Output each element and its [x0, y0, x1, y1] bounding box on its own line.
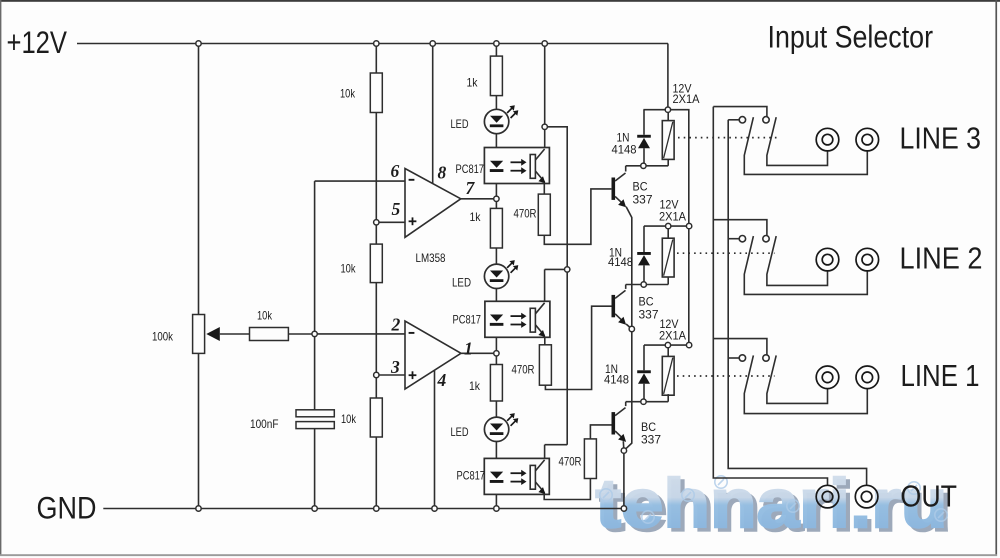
resistor 470R channel 1	[538, 194, 550, 235]
junction divider pin 5	[374, 220, 379, 225]
switch lever right to jack L LINE1	[767, 355, 828, 403]
switch lever right to jack L LINE2	[767, 236, 828, 285]
junction GND / PC817 ch3	[494, 506, 499, 511]
RCA jack R LINE3	[856, 128, 879, 151]
junction collector bus ch2	[565, 267, 570, 272]
optocoupler PC817 channel 2	[485, 301, 550, 337]
wire diode ch1 bottom	[643, 148, 645, 166]
wire op-amp pin 8 to +12V	[432, 44, 434, 184]
svg-text:337: 337	[641, 433, 661, 447]
svg-text:2X1A: 2X1A	[673, 92, 700, 106]
wire 100nF to GND	[314, 429, 316, 509]
svg-text:337: 337	[633, 193, 653, 207]
wire bus L to switch contact LINE1	[713, 339, 767, 355]
wire relay top node ch3	[644, 344, 689, 346]
svg-text:BC: BC	[639, 295, 654, 309]
junction collector bus ch1	[542, 124, 547, 129]
border frame bottom	[0, 554, 997, 556]
wire diode ch3 top	[643, 345, 645, 370]
svg-text:tehnari.ru: tehnari.ru	[596, 465, 948, 542]
wire op-amp pin 1 output	[461, 352, 496, 354]
wire +12V to PC817 ch1 collector	[544, 44, 546, 148]
transistor BC337 channel 1	[612, 173, 627, 207]
svg-text:LINE 3: LINE 3	[900, 121, 982, 156]
svg-text:PC817: PC817	[457, 469, 486, 483]
junction GND / emitter bus	[621, 506, 626, 511]
svg-text:1k: 1k	[467, 76, 479, 90]
junction pin 7 node	[494, 196, 499, 201]
switch lever left to jack R LINE1	[744, 355, 867, 413]
RCA jack R LINE1	[856, 366, 879, 389]
wire BC337 ch1 collector	[625, 166, 627, 172]
RCA jack R LINE2	[856, 248, 879, 271]
wire +12V drop to relay 1	[667, 44, 669, 110]
junction GND / 100nF	[312, 506, 317, 511]
wire output bus L to OUT jack	[713, 107, 827, 486]
svg-text:3: 3	[390, 357, 400, 377]
wire PC817 ch3 emitter to 470R	[544, 479, 590, 500]
wire relay bottom node ch2	[626, 284, 669, 286]
wire 10k bottom to GND	[375, 437, 377, 509]
resistor 470R channel 3	[584, 439, 596, 479]
capacitor 100nF	[296, 410, 334, 429]
wire 1k to LED ch1	[495, 96, 497, 110]
wire 470R ch2 to BC337 base	[545, 306, 612, 389]
wire bus L to switch contact LINE2	[713, 220, 767, 236]
wire relay top node ch1 and +12V relay bus	[643, 110, 688, 345]
wire LED to PC817 ch2	[495, 289, 497, 302]
op-amp U1B minus sign	[409, 332, 415, 334]
op-amp U1A plus sign	[409, 217, 417, 225]
wire relay ch2 top stub	[667, 226, 669, 238]
junction divider pin 3	[374, 372, 379, 377]
border frame left	[0, 0, 1, 556]
junction pin 1 node	[494, 351, 499, 356]
svg-text:LINE 2: LINE 2	[900, 241, 983, 276]
svg-text:LED: LED	[451, 117, 469, 131]
junction emitter bus ch3	[621, 448, 626, 453]
wire PC817 ch3 collector branch	[545, 444, 568, 446]
svg-text:2X1A: 2X1A	[659, 210, 686, 224]
wire divider to op-amp pin 3	[376, 374, 405, 376]
border frame right	[995, 0, 997, 556]
junction node A	[312, 331, 317, 336]
junction emitter bus ch2	[629, 326, 634, 331]
wire PC817 ch3 collector stub	[544, 445, 546, 459]
svg-text:10k: 10k	[341, 262, 357, 276]
optocoupler PC817 channel 1	[484, 148, 549, 184]
junction relay top ch1	[665, 107, 670, 112]
svg-text:+12V: +12V	[7, 24, 68, 60]
LED channel 1	[484, 105, 518, 133]
potentiometer 100k body	[193, 315, 205, 354]
wire PC817 ch1 emitter to 470R	[543, 184, 545, 195]
wire relay top node ch2	[644, 225, 689, 227]
wire diode ch1 top	[643, 110, 645, 135]
svg-text:LINE 1: LINE 1	[901, 358, 980, 393]
resistor 1k channel 2	[490, 208, 502, 248]
svg-text:GND: GND	[37, 489, 97, 525]
wire output bus R to OUT jack	[728, 120, 866, 486]
svg-text:4148: 4148	[612, 143, 637, 157]
wire BC337 ch2 emitter join	[626, 324, 632, 329]
svg-text:470R: 470R	[514, 207, 537, 221]
wire +12V to 10k divider top	[375, 44, 377, 74]
wire relay ch2 bottom stub	[667, 277, 669, 285]
switch contact left LINE3	[739, 117, 745, 123]
wire relay ch1 top stub	[667, 110, 669, 121]
junction GND / divider	[374, 506, 379, 511]
switch lever left to jack R LINE2	[744, 236, 867, 294]
resistor 10k divider middle	[370, 244, 382, 283]
potentiometer wiper arrow	[206, 327, 220, 341]
svg-text:470R: 470R	[512, 363, 535, 377]
junction GND / pin 4	[432, 506, 437, 511]
diode 1N4148 channel 3	[637, 370, 651, 383]
svg-text:10k: 10k	[257, 309, 273, 323]
junction relay bus ch2	[686, 223, 691, 228]
svg-text:Input Selector: Input Selector	[768, 18, 934, 54]
op-amp U1B plus sign	[409, 371, 417, 379]
op-amp U1B LM358	[405, 321, 461, 389]
wire relay ch3 bottom stub	[667, 394, 669, 402]
svg-text:8: 8	[438, 163, 447, 183]
wire BC337 ch2 collector	[625, 285, 627, 289]
watermark screw icon	[787, 500, 799, 512]
wire collector bus	[545, 127, 568, 445]
svg-text:4148: 4148	[604, 373, 629, 387]
wire PC817 ch2 collector stub	[544, 269, 546, 301]
switch lever right to jack L LINE3	[767, 117, 828, 165]
wire divider to op-amp pin 5	[376, 221, 405, 223]
wire 1k to LED ch2	[495, 248, 497, 264]
diode 1N4148 channel 2	[637, 252, 651, 265]
wire node A to op-amp pin 2	[315, 333, 405, 335]
linkage dotted line channel 2	[677, 252, 775, 254]
relay coil 12V 2X1A channel 1	[662, 121, 674, 160]
switch lever left to jack R LINE3	[744, 117, 867, 174]
wire bus R to switch contact LINE2	[728, 238, 739, 240]
svg-text:LM358: LM358	[416, 251, 446, 265]
svg-text:LED: LED	[451, 425, 469, 439]
junction +12V / 1k column	[494, 41, 499, 46]
wire PC817 ch2 to node pin1	[495, 337, 497, 364]
wire node A vertical	[314, 181, 316, 410]
wire 470R ch3 to BC337 base	[590, 425, 611, 439]
svg-text:BC: BC	[633, 180, 648, 194]
wire to op-amp pin 6	[315, 180, 405, 182]
transistor BC337 channel 2	[612, 290, 627, 324]
LED channel 3	[484, 413, 518, 441]
relay coil 12V 2X1A channel 3	[662, 356, 674, 395]
junction GND / pot rail	[196, 506, 201, 511]
RCA jack OUT L	[816, 485, 839, 508]
wire diode ch2 top	[643, 226, 645, 252]
junction +12V / collector rail	[542, 41, 547, 46]
relay coil 12V 2X1A channel 2	[662, 238, 674, 277]
watermark screw icon	[642, 511, 654, 523]
junction +12V / pot rail	[196, 41, 201, 46]
svg-text:OUT: OUT	[901, 479, 958, 514]
junction diode ch1 bottom	[641, 163, 646, 168]
wire GND rail	[103, 508, 624, 510]
wire wiper to 10k	[220, 333, 250, 335]
svg-text:LED: LED	[452, 276, 471, 290]
wire relay bottom node ch1	[626, 165, 669, 167]
svg-text:10k: 10k	[341, 412, 357, 426]
wire diode ch2 bottom	[643, 265, 645, 284]
wire PC817 ch1 to node pin7	[495, 184, 497, 209]
wire relay ch1 bottom stub	[667, 159, 669, 165]
svg-text:337: 337	[639, 308, 659, 322]
junction +12V / pin 8	[430, 41, 435, 46]
resistor 1k channel 1	[490, 56, 502, 96]
junction +12V / divider	[374, 41, 379, 46]
linkage dotted line channel 1	[678, 137, 777, 139]
svg-text:1: 1	[464, 339, 473, 359]
LED channel 2	[484, 260, 518, 288]
watermark screw icon	[715, 476, 727, 488]
svg-text:4: 4	[437, 370, 447, 390]
wire 10k top to 10k mid	[375, 113, 377, 245]
resistor 1k channel 3	[490, 365, 502, 402]
wire LED to PC817 ch1	[495, 134, 497, 148]
junction diode ch3 bottom	[641, 399, 646, 404]
wire pot bottom to GND	[198, 353, 200, 508]
wire bus L to switch contact LINE3	[713, 107, 767, 117]
wire +12V to pot top	[198, 44, 200, 315]
svg-text:100k: 100k	[152, 330, 174, 344]
switch contact right LINE1	[763, 355, 769, 361]
svg-text:PC817: PC817	[456, 162, 485, 176]
RCA jack L LINE2	[816, 248, 839, 271]
junction relay bus ch3	[686, 342, 691, 347]
wire relay bottom node ch3	[626, 401, 669, 403]
RCA jack L LINE1	[816, 366, 839, 389]
watermark screw icon	[682, 489, 694, 501]
svg-text:4148: 4148	[608, 255, 633, 269]
svg-text:6: 6	[391, 161, 400, 181]
wire PC817 ch3 to GND	[495, 494, 497, 508]
linkage dotted line channel 3	[677, 375, 775, 377]
wire relay ch3 top stub	[667, 345, 669, 356]
wire bus R to switch contact LINE1	[728, 357, 739, 359]
optocoupler PC817 channel 3	[484, 458, 549, 494]
transistor BC337 channel 3	[612, 408, 627, 442]
switch contact right LINE3	[763, 117, 769, 123]
svg-text:7: 7	[466, 178, 476, 198]
junction relay top ch2	[666, 223, 671, 228]
switch contact left LINE1	[739, 355, 745, 361]
wire op-amp pin 4 to GND	[434, 370, 436, 508]
resistor 470R channel 2	[539, 345, 551, 385]
switch contact left LINE2	[739, 236, 745, 242]
RCA jack L LINE3	[816, 128, 839, 151]
resistor 10k divider top	[370, 73, 382, 113]
wire BC337 ch3 collector	[625, 402, 627, 406]
svg-text:10k: 10k	[340, 87, 356, 101]
wire BC337 ch3 emitter join	[622, 441, 625, 450]
watermark screw icon	[935, 509, 947, 521]
wire +12V to 1k ch1	[495, 44, 497, 57]
resistor 10k divider bottom	[370, 398, 382, 437]
wire LED to PC817 ch3	[495, 442, 497, 459]
wire emitter bus to GND	[624, 207, 632, 509]
svg-text:PC817: PC817	[453, 313, 482, 327]
svg-text:100nF: 100nF	[250, 417, 279, 431]
svg-text:1k: 1k	[469, 379, 481, 393]
op-amp U1A minus sign	[409, 179, 415, 181]
wire PC817 ch2 emitter to 470R	[544, 337, 546, 345]
svg-text:5: 5	[392, 199, 401, 219]
watermark screw icon	[600, 489, 612, 501]
resistor 10k series wiper	[250, 328, 289, 341]
wire +12V rail	[77, 43, 668, 45]
border frame top	[0, 0, 1000, 2]
wire PC817 ch2 collector branch	[545, 268, 568, 270]
wire 10k to node A	[288, 333, 314, 335]
svg-text:2X1A: 2X1A	[659, 329, 686, 343]
wire diode ch3 bottom	[643, 384, 645, 402]
junction diode ch2 bottom	[641, 282, 646, 287]
wire op-amp pin 7 output	[461, 198, 497, 200]
wire bus R to switch contact LINE3	[728, 119, 739, 121]
svg-text:470R: 470R	[559, 455, 582, 469]
diode 1N4148 channel 1	[637, 135, 651, 148]
switch contact right LINE2	[763, 236, 769, 242]
RCA jack OUT R	[855, 485, 878, 508]
wire 10k mid to 10k bottom	[375, 283, 377, 398]
watermark screw icon	[908, 482, 920, 494]
svg-text:1k: 1k	[470, 210, 482, 224]
wire 470R ch1 to BC337 base	[544, 189, 611, 244]
wire 1k to LED ch3	[495, 401, 497, 417]
op-amp U1A LM358	[405, 169, 461, 238]
junction relay top ch3	[665, 342, 670, 347]
svg-text:2: 2	[391, 314, 401, 334]
